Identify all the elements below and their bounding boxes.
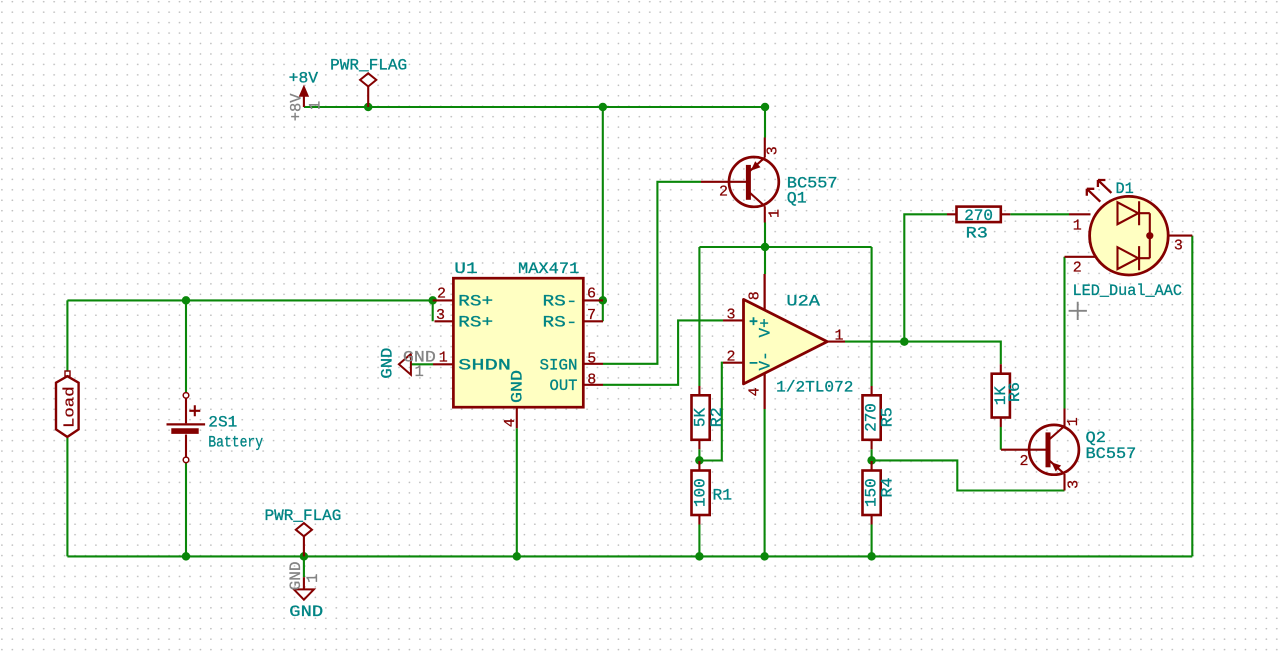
svg-text:8: 8	[746, 291, 763, 300]
svg-text:3: 3	[727, 306, 736, 323]
svg-text:R2: R2	[708, 407, 726, 427]
svg-text:4: 4	[502, 418, 519, 427]
svg-text:V-: V-	[757, 351, 775, 370]
svg-text:R4: R4	[879, 478, 897, 498]
svg-text:RS+: RS+	[458, 293, 493, 311]
svg-text:V+: V+	[757, 318, 775, 337]
svg-text:SIGN: SIGN	[540, 356, 578, 374]
svg-text:R5: R5	[879, 407, 897, 427]
svg-text:Battery: Battery	[208, 433, 263, 451]
svg-text:3: 3	[436, 307, 445, 324]
svg-text:Q1: Q1	[787, 189, 807, 207]
svg-text:5K: 5K	[692, 408, 710, 428]
svg-text:Load: Load	[62, 386, 79, 428]
svg-text:2S1: 2S1	[208, 413, 237, 431]
svg-text:1: 1	[304, 574, 322, 583]
svg-text:4: 4	[746, 387, 763, 396]
svg-text:150: 150	[863, 478, 881, 507]
svg-text:OUT: OUT	[550, 377, 578, 395]
svg-text:U2A: U2A	[786, 292, 820, 310]
svg-text:6: 6	[587, 286, 596, 303]
svg-text:SHDN: SHDN	[458, 356, 511, 374]
svg-text:3: 3	[1065, 480, 1082, 489]
svg-text:2: 2	[1020, 453, 1029, 470]
svg-text:RS+: RS+	[458, 313, 493, 331]
svg-text:1K: 1K	[992, 386, 1010, 406]
svg-text:5: 5	[587, 351, 596, 368]
svg-text:PWR_FLAG: PWR_FLAG	[330, 57, 407, 75]
svg-text:1/2TL072: 1/2TL072	[776, 378, 853, 396]
svg-text:+8V: +8V	[289, 70, 319, 88]
svg-text:1: 1	[1065, 417, 1082, 426]
svg-text:GND: GND	[378, 348, 396, 379]
svg-text:R3: R3	[966, 224, 988, 242]
svg-text:+8V: +8V	[287, 93, 305, 122]
svg-text:U1: U1	[454, 260, 477, 278]
svg-text:BC557: BC557	[1086, 445, 1137, 463]
svg-text:1: 1	[439, 350, 448, 367]
svg-text:270: 270	[964, 207, 993, 225]
svg-text:1: 1	[307, 101, 325, 110]
svg-text:MAX471: MAX471	[518, 260, 579, 278]
svg-text:GND: GND	[508, 370, 526, 403]
svg-text:2: 2	[437, 286, 446, 303]
svg-text:1: 1	[767, 209, 784, 218]
svg-text:3: 3	[765, 146, 782, 155]
svg-text:D1: D1	[1116, 180, 1134, 198]
svg-text:270: 270	[863, 403, 881, 432]
svg-text:2: 2	[719, 184, 728, 201]
svg-text:LED_Dual_AAC: LED_Dual_AAC	[1073, 282, 1183, 300]
svg-text:100: 100	[692, 478, 710, 507]
svg-text:3: 3	[1174, 237, 1183, 254]
svg-text:1: 1	[1073, 218, 1082, 235]
svg-text:GND: GND	[287, 561, 305, 590]
svg-text:R1: R1	[713, 486, 733, 504]
svg-text:7: 7	[587, 307, 596, 324]
svg-text:2: 2	[1073, 260, 1082, 277]
svg-text:8: 8	[587, 372, 596, 389]
svg-text:RS-: RS-	[543, 313, 578, 331]
svg-text:1: 1	[835, 327, 844, 344]
svg-text:RS-: RS-	[543, 293, 578, 311]
svg-text:2: 2	[727, 349, 736, 366]
svg-text:PWR_FLAG: PWR_FLAG	[265, 507, 342, 525]
svg-text:GND: GND	[289, 603, 323, 621]
svg-text:1: 1	[415, 363, 424, 381]
